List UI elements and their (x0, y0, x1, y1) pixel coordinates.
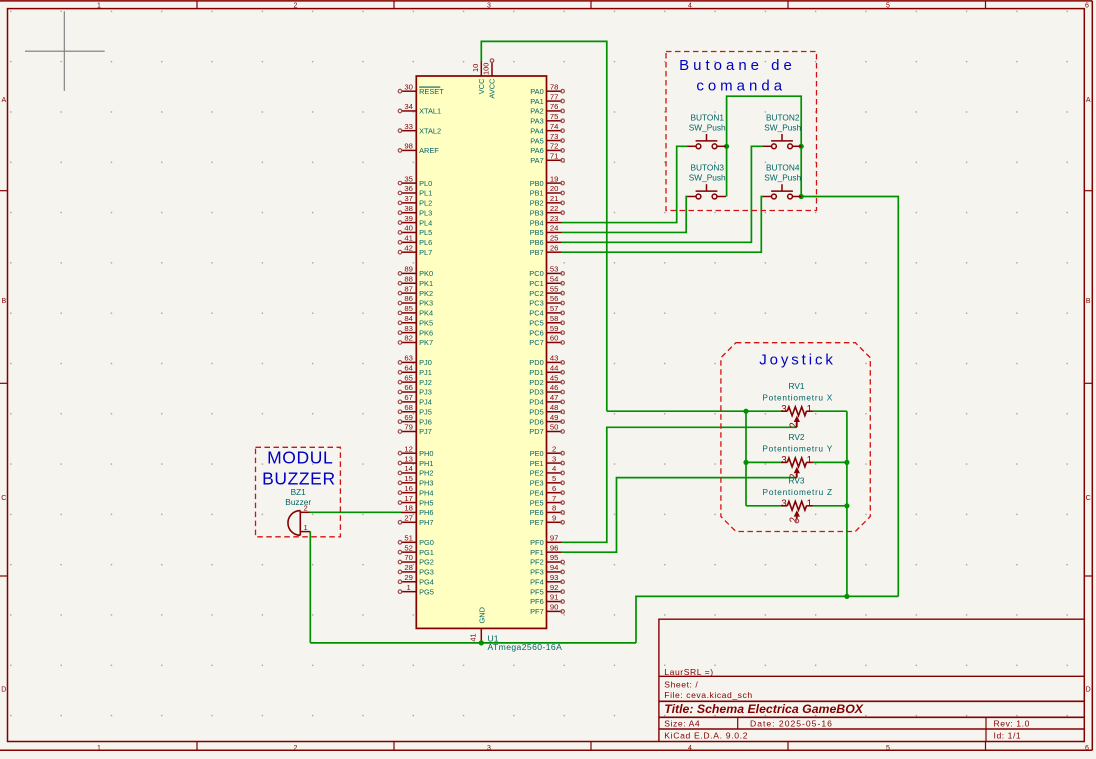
svg-text:90: 90 (550, 603, 559, 612)
U1 pin 13 (PH1) left (401, 462, 416, 464)
svg-text:VCC: VCC (477, 78, 486, 94)
U1 pin 28 (PG3) left (401, 571, 416, 573)
svg-text:PB6: PB6 (530, 238, 544, 247)
U1 pin 86 (PK3) left (401, 302, 416, 304)
svg-text:PH6: PH6 (419, 508, 433, 517)
U1 pin 91 (PF6) right (547, 601, 562, 603)
junction at 846.9,596.4 (844, 594, 849, 599)
svg-text:PC1: PC1 (529, 279, 543, 288)
svg-text:PF5: PF5 (530, 587, 544, 596)
svg-text:PF0: PF0 (530, 538, 544, 547)
U1 pin 52 (PG1) left (401, 551, 416, 553)
svg-text:49: 49 (550, 413, 559, 422)
svg-text:55: 55 (550, 284, 559, 293)
U1 pin 69 (PJ6) left (401, 421, 416, 423)
U1 pin 23 (PB4) right (547, 222, 562, 224)
U1 pin 98 (AREF) left (401, 149, 416, 151)
svg-text:PF6: PF6 (530, 597, 544, 606)
svg-text:82: 82 (404, 334, 413, 343)
svg-text:77: 77 (550, 92, 559, 101)
svg-text:15: 15 (404, 474, 413, 483)
U1 pin 90 (PF7) right (547, 610, 562, 612)
svg-text:3: 3 (487, 2, 491, 9)
U1 pin 15 (PH3) left (401, 482, 416, 484)
U1 pin 34 (XTAL1) left (401, 110, 416, 112)
U1 pin 74 (PA4) right (547, 130, 562, 132)
svg-text:87: 87 (404, 284, 413, 293)
svg-text:PK6: PK6 (419, 328, 433, 337)
svg-text:20: 20 (550, 184, 559, 193)
op-amp U1 body (ATmega2560-16A) yellow rectangle (416, 76, 546, 628)
svg-text:41: 41 (404, 234, 413, 243)
resistor RV1 potentiometer Potentiometru X (781, 407, 813, 427)
svg-text:PA5: PA5 (530, 136, 543, 145)
wire to RV2 pin3 (746, 461, 781, 463)
svg-text:36: 36 (404, 184, 413, 193)
svg-text:PE1: PE1 (530, 459, 544, 468)
svg-text:PH5: PH5 (419, 498, 433, 507)
U1 pin 60 (PC7) right (547, 341, 562, 343)
U1 pin 1 (PG5) left (401, 591, 416, 593)
svg-text:Date: 2025-05-16: Date: 2025-05-16 (750, 718, 833, 728)
cursor crosshair (25, 50, 105, 52)
svg-text:PH3: PH3 (419, 479, 433, 488)
svg-text:RESET: RESET (419, 87, 444, 96)
U1 pin 78 (PA0) right (547, 90, 562, 92)
U1 pin 9 (PE7) right (547, 521, 562, 523)
svg-text:PG1: PG1 (419, 548, 434, 557)
svg-text:58: 58 (550, 314, 559, 323)
svg-text:PL5: PL5 (419, 228, 432, 237)
svg-text:PA0: PA0 (530, 87, 543, 96)
svg-text:PA7: PA7 (530, 156, 543, 165)
svg-text:1: 1 (807, 455, 812, 466)
junction at 726.6,146.3 (724, 144, 729, 149)
wire GND up and right (636, 596, 898, 643)
U1 pin 19 (PB0) right (547, 182, 562, 184)
U1 pin 79 (PJ7) left (401, 430, 416, 432)
U1 pin 21 (PB2) right (547, 202, 562, 204)
svg-text:PF7: PF7 (530, 607, 544, 616)
switch BUTON1 (SW_Push) (687, 134, 726, 149)
wire VCC to RV1 pin3 (607, 410, 781, 412)
svg-text:PA3: PA3 (530, 117, 543, 126)
svg-text:PC0: PC0 (529, 269, 543, 278)
svg-text:BZ1: BZ1 (291, 487, 307, 497)
wire GND horizontal (310, 642, 636, 644)
U1 pin 82 (PK7) left (401, 341, 416, 343)
svg-text:5: 5 (886, 745, 890, 752)
svg-text:SW_Push: SW_Push (764, 173, 801, 183)
svg-text:PC2: PC2 (529, 289, 543, 298)
svg-text:A: A (1086, 97, 1091, 104)
svg-text:45: 45 (550, 373, 559, 382)
svg-text:SW_Push: SW_Push (689, 173, 726, 183)
U1 pin 77 (PA1) right (547, 100, 562, 102)
U1 pin 50 (PD7) right (547, 430, 562, 432)
svg-text:39: 39 (404, 214, 413, 223)
svg-text:PE4: PE4 (530, 488, 544, 497)
U1 pin 65 (PJ2) left (401, 381, 416, 383)
svg-text:10: 10 (471, 64, 480, 72)
svg-text:PL6: PL6 (419, 238, 432, 247)
U1 pin 43 (PD0) right (547, 361, 562, 363)
U1 pin 47 (PD4) right (547, 401, 562, 403)
wire PB6 to BUTON2 left (562, 146, 763, 242)
U1 pin 10 (VCC) top (480, 62, 482, 77)
svg-text:3: 3 (487, 745, 491, 752)
svg-text:PK4: PK4 (419, 309, 433, 318)
svg-text:16: 16 (404, 484, 413, 493)
svg-text:PD6: PD6 (529, 417, 543, 426)
svg-text:PH4: PH4 (419, 488, 433, 497)
svg-text:83: 83 (404, 324, 413, 333)
svg-text:86: 86 (404, 294, 413, 303)
dashed box MODUL BUZZER (256, 447, 341, 537)
svg-text:14: 14 (404, 464, 413, 473)
U1 pin 7 (PE5) right (547, 502, 562, 504)
U1 pin 68 (PJ5) left (401, 411, 416, 413)
svg-text:RV1: RV1 (789, 381, 805, 391)
wire up to BUTON4 right (801, 197, 898, 597)
wire PF1 to RV2 wiper (562, 478, 797, 553)
wire BUTON2 right to BUTON4 right (800, 146, 802, 196)
U1 pin 92 (PF5) right (547, 591, 562, 593)
junction at 481.3,642.9 (479, 640, 484, 645)
svg-text:Potentiometru X: Potentiometru X (762, 393, 833, 403)
svg-text:Joystick: Joystick (759, 352, 836, 369)
U1 pin 94 (PF3) right (547, 571, 562, 573)
U1 pin 93 (PF4) right (547, 581, 562, 583)
U1 pin 29 (PG4) left (401, 581, 416, 583)
svg-text:27: 27 (404, 513, 413, 522)
svg-text:PE7: PE7 (530, 518, 544, 527)
svg-text:92: 92 (550, 583, 559, 592)
svg-text:PD2: PD2 (529, 378, 543, 387)
svg-text:GND: GND (477, 607, 486, 623)
svg-text:85: 85 (404, 304, 413, 313)
svg-text:48: 48 (550, 403, 559, 412)
svg-text:1: 1 (304, 523, 308, 532)
U1 pin 59 (PC6) right (547, 332, 562, 334)
svg-text:PC5: PC5 (529, 318, 543, 327)
svg-text:73: 73 (550, 132, 559, 141)
svg-text:34: 34 (404, 102, 413, 111)
svg-text:Sheet: /: Sheet: / (664, 680, 698, 690)
U1 pin 33 (XTAL2) left (401, 130, 416, 132)
svg-text:PG2: PG2 (419, 558, 434, 567)
svg-text:23: 23 (550, 214, 559, 223)
svg-text:PK0: PK0 (419, 269, 433, 278)
U1 pin 30 (RESET) left (401, 90, 416, 92)
U1 pin 88 (PK1) left (401, 282, 416, 284)
svg-text:XTAL2: XTAL2 (419, 126, 441, 135)
buzzer BZ1 symbol (288, 511, 310, 536)
U1 pin 97 (PF0) right (547, 541, 562, 543)
U1 pin 84 (PK5) left (401, 322, 416, 324)
svg-text:PK2: PK2 (419, 289, 433, 298)
U1 pin 8 (PE6) right (547, 511, 562, 513)
svg-text:C: C (1086, 495, 1091, 502)
U1 pin 39 (PL4) left (401, 222, 416, 224)
svg-text:PJ3: PJ3 (419, 388, 432, 397)
svg-text:PE2: PE2 (530, 469, 544, 478)
svg-text:BUTON2: BUTON2 (766, 112, 800, 122)
svg-text:PH2: PH2 (419, 469, 433, 478)
svg-text:43: 43 (550, 354, 559, 363)
svg-text:54: 54 (550, 274, 559, 283)
U1 pin 20 (PB1) right (547, 192, 562, 194)
wire PB5 to BUTON3 left (562, 197, 688, 233)
svg-text:56: 56 (550, 294, 559, 303)
svg-text:PH1: PH1 (419, 459, 433, 468)
wire RV pin1 bus down (846, 411, 848, 596)
svg-text:65: 65 (404, 373, 413, 382)
U1 pin 96 (PF1) right (547, 551, 562, 553)
svg-text:71: 71 (550, 151, 559, 160)
svg-text:PH0: PH0 (419, 449, 433, 458)
U1 pin 40 (PL5) left (401, 231, 416, 233)
svg-text:2: 2 (294, 745, 298, 752)
svg-text:MODUL: MODUL (267, 448, 333, 468)
svg-text:91: 91 (550, 593, 559, 602)
svg-text:68: 68 (404, 403, 413, 412)
U1 pin 54 (PC1) right (547, 282, 562, 284)
svg-text:21: 21 (550, 194, 559, 203)
svg-text:93: 93 (550, 573, 559, 582)
wire VCC branch down to RV2/RV3 pin3 (745, 411, 747, 506)
wire BZ1 pin1 down (309, 532, 311, 643)
junction at 746,411.2 (743, 409, 748, 414)
svg-text:PL3: PL3 (419, 208, 432, 217)
svg-text:KiCad E.D.A. 9.0.2: KiCad E.D.A. 9.0.2 (664, 731, 748, 741)
U1 pin 53 (PC0) right (547, 272, 562, 274)
U1 pin 12 (PH0) left (401, 452, 416, 454)
svg-text:PK5: PK5 (419, 318, 433, 327)
svg-text:29: 29 (404, 573, 413, 582)
resistor RV3 potentiometer Potentiometru Z (781, 501, 813, 519)
svg-text:17: 17 (404, 494, 413, 503)
svg-text:4: 4 (688, 745, 692, 752)
wire BUTON1 right to BUTON2 right over top (727, 96, 802, 146)
U1 pin 45 (PD2) right (547, 381, 562, 383)
svg-text:D: D (1086, 686, 1091, 693)
svg-text:1: 1 (807, 499, 812, 510)
svg-text:PD3: PD3 (529, 388, 543, 397)
svg-text:9: 9 (552, 513, 556, 522)
svg-text:PB5: PB5 (530, 228, 544, 237)
svg-text:PC7: PC7 (529, 338, 543, 347)
U1 pin 70 (PG2) left (401, 561, 416, 563)
svg-text:7: 7 (552, 494, 556, 503)
svg-text:PG5: PG5 (419, 587, 434, 596)
U1 pin 22 (PB3) right (547, 212, 562, 214)
svg-text:2: 2 (294, 2, 298, 9)
svg-text:BUTON1: BUTON1 (690, 112, 724, 122)
svg-text:37: 37 (404, 194, 413, 203)
U1 pin 3 (PE1) right (547, 462, 562, 464)
svg-text:PB4: PB4 (530, 218, 544, 227)
svg-text:PF4: PF4 (530, 577, 544, 586)
svg-text:22: 22 (550, 204, 559, 213)
svg-text:PD5: PD5 (529, 407, 543, 416)
svg-text:46: 46 (550, 383, 559, 392)
svg-text:25: 25 (550, 234, 559, 243)
svg-text:PL0: PL0 (419, 179, 432, 188)
svg-text:96: 96 (550, 543, 559, 552)
wire to RV3 pin3 (746, 505, 781, 507)
svg-text:94: 94 (550, 563, 559, 572)
svg-text:comanda: comanda (696, 77, 786, 94)
svg-text:Potentiometru Y: Potentiometru Y (762, 444, 833, 454)
svg-text:PH7: PH7 (419, 518, 433, 527)
svg-text:84: 84 (404, 314, 413, 323)
U1 pin 14 (PH2) left (401, 472, 416, 474)
svg-text:4: 4 (552, 464, 557, 473)
U1 pin 16 (PH4) left (401, 492, 416, 494)
svg-text:PJ6: PJ6 (419, 417, 432, 426)
U1 pin 4 (PE2) right (547, 472, 562, 474)
svg-text:12: 12 (404, 444, 413, 453)
svg-text:28: 28 (404, 563, 413, 572)
svg-text:76: 76 (550, 102, 559, 111)
svg-text:PD0: PD0 (529, 358, 543, 367)
U1 pin 27 (PH7) left (401, 521, 416, 523)
svg-text:LaurSRL =): LaurSRL =) (664, 667, 713, 677)
junction at 801.2,146.3 (799, 144, 804, 149)
U1 pin 71 (PA7) right (547, 159, 562, 161)
svg-text:6: 6 (1085, 745, 1089, 752)
U1 pin 100 (AVCC) top (491, 62, 493, 77)
U1 pin 83 (PK6) left (401, 332, 416, 334)
svg-text:PJ4: PJ4 (419, 398, 432, 407)
U1 pin 55 (PC2) right (547, 292, 562, 294)
svg-text:Id: 1/1: Id: 1/1 (994, 731, 1022, 741)
wire BZ1 pin2 to PH6 (310, 511, 402, 513)
svg-text:PC4: PC4 (529, 309, 543, 318)
svg-text:8: 8 (552, 504, 556, 513)
svg-text:PJ1: PJ1 (419, 368, 432, 377)
U1 pin 89 (PK0) left (401, 272, 416, 274)
svg-text:PD7: PD7 (529, 427, 543, 436)
junction at 846.9,505.8 (844, 503, 849, 508)
U1 pin 35 (PL0) left (401, 182, 416, 184)
svg-text:PA6: PA6 (530, 146, 543, 155)
svg-text:69: 69 (404, 413, 413, 422)
wire BUTON1 right to BUTON3 right (726, 146, 728, 196)
svg-text:88: 88 (404, 274, 413, 283)
junction at 801.2,196.5 (799, 194, 804, 199)
wire RV2 pin1 right (813, 461, 847, 463)
svg-text:35: 35 (404, 174, 413, 183)
svg-text:B: B (1086, 298, 1091, 305)
resistor RV2 potentiometer Potentiometru Y (781, 458, 813, 478)
svg-text:PK7: PK7 (419, 338, 433, 347)
U1 pin 46 (PD3) right (547, 391, 562, 393)
svg-text:PB7: PB7 (530, 248, 544, 257)
svg-text:PB0: PB0 (530, 179, 544, 188)
svg-text:Title: Schema Electrica GameBO: Title: Schema Electrica GameBOX (664, 702, 863, 716)
U1 pin 64 (PJ1) left (401, 371, 416, 373)
U1 pin 18 (PH6) left (401, 511, 416, 513)
junction at 846.9,462.4 (844, 460, 849, 465)
U1 pin 57 (PC4) right (547, 312, 562, 314)
U1 pin 38 (PL3) left (401, 212, 416, 214)
svg-text:PC6: PC6 (529, 328, 543, 337)
switch BUTON3 (SW_Push) (687, 184, 726, 199)
U1 pin 87 (PK2) left (401, 292, 416, 294)
svg-text:A: A (1, 97, 6, 104)
svg-text:50: 50 (550, 423, 559, 432)
svg-text:95: 95 (550, 553, 559, 562)
svg-text:1: 1 (97, 745, 101, 752)
svg-text:2: 2 (552, 444, 556, 453)
U1 pin 75 (PA3) right (547, 120, 562, 122)
svg-text:30: 30 (404, 82, 413, 91)
svg-text:53: 53 (550, 265, 559, 274)
svg-text:BUZZER: BUZZER (262, 469, 336, 489)
svg-text:57: 57 (550, 304, 559, 313)
svg-text:47: 47 (550, 393, 559, 402)
svg-text:RV2: RV2 (789, 432, 805, 442)
svg-text:1: 1 (807, 404, 812, 415)
wire RV1 pin1 right (813, 410, 847, 412)
svg-text:Rev: 1.0: Rev: 1.0 (994, 718, 1030, 728)
svg-text:3: 3 (781, 404, 787, 415)
U1 pin 2 (PE0) right (547, 452, 562, 454)
svg-text:PG3: PG3 (419, 568, 434, 577)
svg-text:79: 79 (404, 423, 413, 432)
U1 pin 6 (PE4) right (547, 492, 562, 494)
svg-text:PD4: PD4 (529, 398, 543, 407)
svg-text:24: 24 (550, 224, 559, 233)
svg-text:51: 51 (404, 534, 413, 543)
svg-text:13: 13 (404, 454, 413, 463)
svg-text:2: 2 (788, 422, 799, 427)
svg-text:98: 98 (404, 142, 413, 151)
svg-text:PC3: PC3 (529, 299, 543, 308)
svg-text:PJ7: PJ7 (419, 427, 432, 436)
svg-text:72: 72 (550, 142, 559, 151)
svg-text:B: B (1, 298, 6, 305)
svg-text:4: 4 (688, 2, 692, 9)
svg-text:PJ2: PJ2 (419, 378, 432, 387)
svg-text:PL4: PL4 (419, 218, 432, 227)
svg-text:PE0: PE0 (530, 449, 544, 458)
svg-text:AVCC: AVCC (487, 78, 496, 99)
svg-text:PL2: PL2 (419, 199, 432, 208)
svg-text:PB1: PB1 (530, 189, 544, 198)
svg-text:PE5: PE5 (530, 498, 544, 507)
svg-text:Potentiometru Z: Potentiometru Z (763, 487, 833, 497)
svg-text:75: 75 (550, 112, 559, 121)
svg-text:38: 38 (404, 204, 413, 213)
svg-text:BUTON3: BUTON3 (690, 163, 724, 173)
wire PB4 to BUTON1 left (562, 146, 688, 222)
svg-text:66: 66 (404, 383, 413, 392)
svg-text:C: C (1, 495, 6, 502)
wire PB7 to BUTON4 left (562, 197, 763, 253)
U1 pin 5 (PE3) right (547, 482, 562, 484)
U1 pin 36 (PL1) left (401, 192, 416, 194)
svg-text:SW_Push: SW_Push (764, 123, 801, 133)
svg-text:40: 40 (404, 224, 413, 233)
svg-text:3: 3 (781, 455, 787, 466)
svg-text:PJ0: PJ0 (419, 358, 432, 367)
svg-text:PA1: PA1 (530, 97, 543, 106)
svg-text:44: 44 (550, 363, 559, 372)
svg-text:PB3: PB3 (530, 208, 544, 217)
